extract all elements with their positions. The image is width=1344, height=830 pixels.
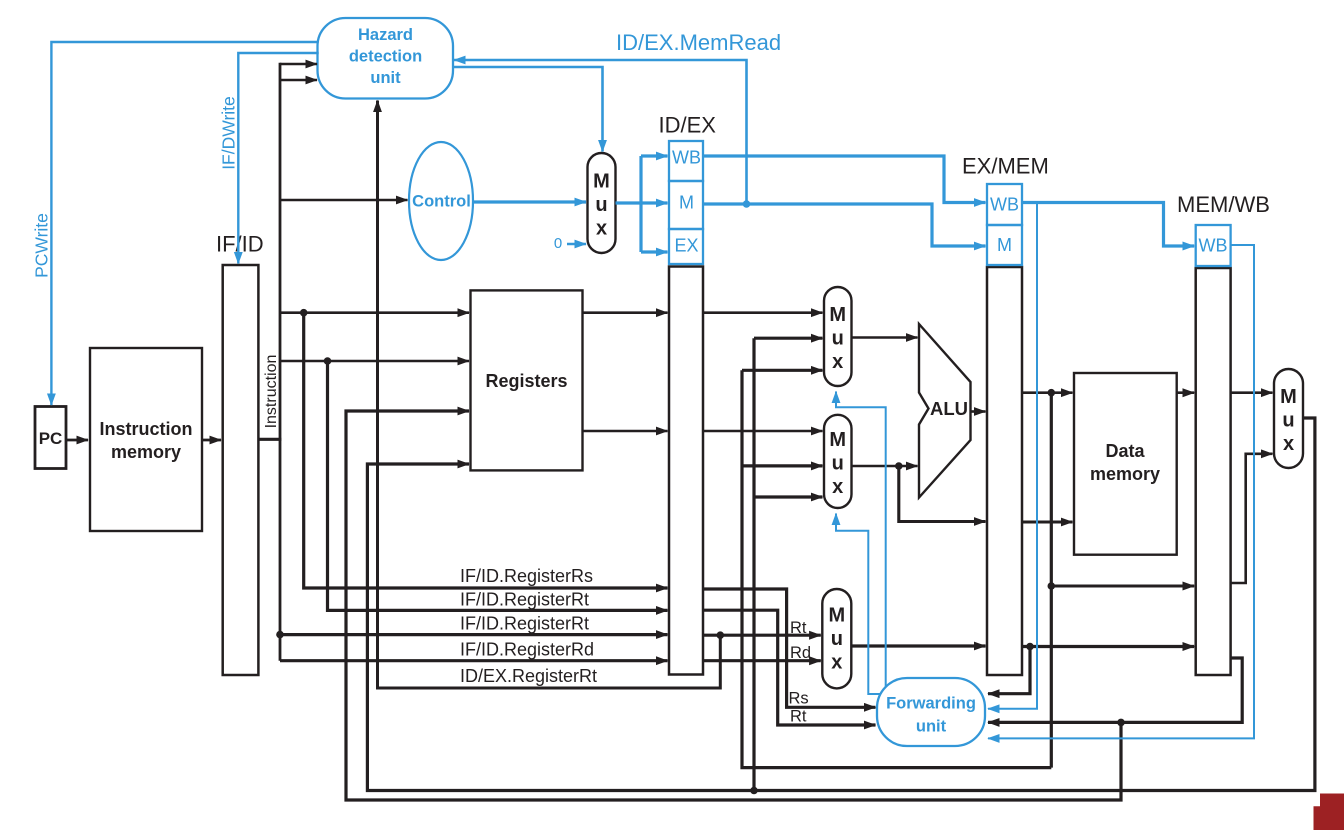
forwarding unit [877,678,985,746]
svg-text:M: M [1280,386,1297,408]
wire ID/EX WB to EX/MEM WB [703,156,986,203]
svg-text:M: M [593,170,610,192]
wire forward to mux B input 3 [754,495,823,498]
node ALU result tap [1048,389,1056,397]
wire IF/ID.RegisterRd [280,659,668,662]
svg-text:WB: WB [672,148,701,168]
registers file [471,290,583,470]
hazard detection unit [318,18,454,99]
node MEM/WB rd [1117,719,1125,727]
node on read1 line [300,309,308,317]
instruction memory [90,348,202,531]
svg-text:u: u [595,194,607,216]
wire ForwardA control [836,392,886,688]
svg-text:Rt: Rt [790,708,807,726]
wire hazard unit to stall mux [452,67,603,152]
stall mux (control mux) [588,153,616,253]
svg-text:x: x [832,476,843,498]
svg-text:Rt: Rt [790,619,807,637]
wire forward to mux A input 3 [742,369,823,372]
ID/EX EX box [669,229,703,264]
data memory [1074,373,1177,555]
wire IF/ID.RegisterRt second [280,633,668,636]
svg-text:M: M [997,235,1012,255]
svg-text:ID/EX: ID/EX [659,113,717,138]
svg-text:M: M [829,429,846,451]
wire ID/EX.MemRead to hazard unit [454,60,747,204]
wire to hazard input 2 [280,79,317,82]
wire MEM/WB data to writeback mux [1231,391,1273,394]
svg-text:IF/ID.RegisterRt: IF/ID.RegisterRt [460,590,589,610]
wire to control unit [280,199,408,202]
IF/ID pipeline register [216,232,264,676]
wire IF/ID.RegisterRs [304,313,668,588]
svg-text:PCWrite: PCWrite [32,213,52,278]
wire fan to M [641,201,668,204]
svg-text:detection: detection [349,48,422,66]
wire fan vertical [639,156,642,252]
wire zero input to stall mux [567,243,586,245]
wire forward to mux A input 2 [754,337,823,340]
svg-text:ID/EX.RegisterRt: ID/EX.RegisterRt [460,666,597,686]
MEM/WB WB box [1196,225,1231,266]
wire ID/EX M to EX/MEM M [703,204,986,246]
wire ID/EX Rd output to regdst mux [703,659,821,662]
svg-text:memory: memory [1090,464,1160,484]
control unit (ellipse) [409,142,473,260]
wire forward to mux B input 2 [742,464,823,467]
svg-text:unit: unit [370,69,401,87]
wire EX/MEM.RegisterRd to MEM/WB [1022,645,1194,648]
svg-text:u: u [832,327,844,349]
svg-text:WB: WB [990,195,1019,215]
PC register [35,407,66,469]
EX/MEM M box [987,225,1022,265]
node EX/MEM rd [1026,643,1034,651]
MEM/WB pipeline register [1177,192,1270,675]
wire mux A to ALU [852,336,918,339]
wire instruction memory to IF/ID [202,439,221,442]
svg-text:Hazard: Hazard [358,26,413,44]
node store data [895,462,903,470]
svg-text:Data: Data [1105,441,1145,461]
node on read2 line [324,357,332,365]
svg-text:Control: Control [412,193,471,211]
svg-text:u: u [1282,409,1294,431]
wire stall mux output fan [616,201,642,204]
wire EX/MEM write data to data memory [1022,520,1073,523]
svg-text:IF/ID: IF/ID [216,232,264,257]
wire read register 1 [280,311,469,314]
wire MEM/WB ALU result to writeback mux [1231,454,1273,583]
svg-text:IF/DWrite: IF/DWrite [219,96,239,170]
wire ID/EX Rs to forwarding unit [703,589,876,707]
mux A (ALU input 1) [824,287,852,386]
wire IF/ID.RegisterRt (to read2) [328,361,668,610]
ID/EX M box [669,181,703,229]
svg-text:Instruction: Instruction [100,419,193,439]
svg-text:WB: WB [1199,236,1228,256]
svg-text:Forwarding: Forwarding [886,695,976,713]
wire EX/MEM.RegisterRd branch to forwarding unit [988,647,1030,694]
wire instruction stub from IF/ID [258,438,281,441]
svg-text:x: x [831,651,842,673]
mux B (ALU input 2) [824,415,852,508]
svg-text:x: x [596,217,607,239]
wire writeback mux output to registers write data [367,418,1315,791]
svg-text:Registers: Registers [485,371,567,391]
svg-text:u: u [831,628,843,650]
wire write register number to registers [346,411,1121,800]
wire EX/MEM WB to MEM/WB WB [1022,203,1194,247]
wire ID/EX Rt output to regdst mux [703,634,821,637]
wire IF/DWrite [238,53,318,264]
wire store data to EX/MEM [899,466,986,522]
svg-text:memory: memory [111,442,181,462]
writeback mux (far right) [1274,369,1303,468]
wire ALU result bypass to MEM/WB [1051,584,1194,587]
wire to hazard input 1 [280,63,317,66]
node Rt branch [717,631,725,639]
wire MEM/WB RegWrite to forwarding unit [988,245,1254,738]
svg-text:Rd: Rd [790,644,811,662]
svg-text:M: M [828,604,845,626]
node ID/EX.MemRead tap [743,200,751,208]
node ALU bypass corner [1048,582,1056,590]
svg-text:x: x [1283,433,1294,455]
wire EX/MEM address to data memory [1022,391,1073,394]
regdst mux (Rt/Rd) [822,589,851,688]
svg-text:Instruction: Instruction [263,355,280,429]
wire registers read1 to ID/EX [582,311,667,314]
svg-text:ID/EX.MemRead: ID/EX.MemRead [616,30,781,55]
wire forward MEMWB vertical [742,370,1051,767]
wire ID/EX read1 to mux A [703,311,823,314]
wire registers read2 to ID/EX [582,430,667,433]
svg-text:MEM/WB: MEM/WB [1177,192,1270,217]
svg-text:EX: EX [674,236,698,256]
wire PCWrite [51,42,318,405]
wire ID/EX Rt to forwarding unit [703,610,876,725]
wire regdst mux output to EX/MEM [851,644,985,647]
wire EX/MEM RegWrite to forwarding unit [988,203,1037,709]
wire fan to WB [641,154,668,157]
svg-text:0: 0 [554,235,562,252]
svg-text:M: M [679,193,694,213]
wire ALU result tap vertical [1050,393,1053,768]
ALU [919,324,971,498]
EX/MEM pipeline register [962,153,1049,675]
wire fan to EX [641,250,668,253]
decorative red corner [1314,794,1344,830]
EX/MEM WB box [987,184,1022,225]
svg-text:PC: PC [39,429,63,448]
wire control to stall mux [473,200,586,203]
wire read register 2 [280,360,469,363]
wire MEM/WB.RegisterRd to forwarding unit [988,658,1242,722]
wire ID/EX.RegisterRt to hazard unit [378,101,721,689]
wire PC to instruction memory [66,439,88,442]
wire instruction bus vertical [279,63,282,661]
svg-text:x: x [832,351,843,373]
svg-text:ALU: ALU [930,398,968,419]
wire forward EXMEM vertical [752,338,755,790]
wire ForwardB control [836,514,880,695]
ID/EX WB box [669,141,703,181]
node on writeback data line [750,787,758,795]
svg-text:IF/ID.RegisterRs: IF/ID.RegisterRs [460,566,593,586]
wire ALU output to EX/MEM [971,410,986,413]
svg-text:Rs: Rs [789,690,809,708]
svg-text:M: M [829,304,846,326]
svg-text:u: u [832,452,844,474]
ID/EX pipeline register [659,113,717,675]
svg-text:IF/ID.RegisterRt: IF/ID.RegisterRt [460,614,589,634]
svg-text:IF/ID.RegisterRd: IF/ID.RegisterRd [460,640,594,660]
svg-text:unit: unit [916,718,947,736]
svg-text:EX/MEM: EX/MEM [962,153,1049,178]
wire ID/EX read2 to mux B [703,430,823,433]
wire data memory read data to MEM/WB [1177,391,1195,394]
wire mux B to ALU [852,465,918,468]
node on instruction bus [276,631,284,639]
